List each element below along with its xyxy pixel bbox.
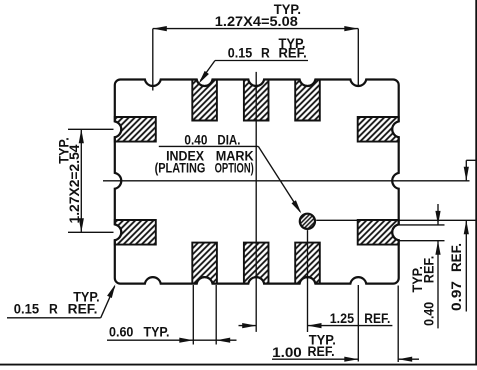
svg-text:0.15: 0.15 [14,302,40,317]
ext line notch top tangent [399,224,445,226]
ext line row3 left [68,231,114,233]
svg-text:REF.: REF. [422,256,437,284]
ext line index circle to right [316,219,477,221]
leader diagonal 0.15R bottom [101,286,115,318]
horizontal center line [103,180,470,182]
leader bar index mark [159,145,258,147]
svg-text:REF.: REF. [449,243,464,272]
pad right-1 [358,117,399,142]
svg-text:1.27X4=5.08: 1.27X4=5.08 [215,14,299,29]
pad top-3 [295,80,320,121]
leader diagonal 0.15R top [201,61,216,81]
ext line castellation col5 top [357,29,359,87]
dim line 0.97 lower segment [465,220,467,311]
pad left-1 [115,117,156,142]
svg-text:(PLATING: (PLATING [155,160,206,175]
pad left-2 [115,220,156,245]
drawing frame line right [475,0,477,365]
ext line row1 left [68,128,114,130]
svg-text:R: R [49,302,58,317]
svg-text:R: R [261,45,270,60]
leader bar 0.15R bottom [7,317,101,319]
svg-text:TYP.: TYP. [144,325,170,340]
ext line pad bottom-1 right edge [215,285,217,345]
svg-text:1.25: 1.25 [330,311,355,326]
dim line 1.25 left tail [239,325,257,327]
pad top-2 [244,80,269,121]
dim line 0.60 [107,339,237,341]
pad right-2 [358,220,399,245]
leader bar 0.15R top [215,60,308,62]
svg-text:REF.: REF. [279,45,307,60]
pad top-1 [192,80,217,121]
dim line 1.25 right tail [308,325,393,327]
svg-text:OPTION): OPTION) [215,160,254,175]
svg-text:REF.: REF. [68,302,98,317]
dim line 1.27X2=2.54 [80,129,82,232]
svg-text:0.40: 0.40 [422,302,437,326]
pad bottom-1 [192,243,217,284]
svg-text:1.00: 1.00 [272,345,302,360]
svg-text:1.27X2=2.54: 1.27X2=2.54 [67,144,82,223]
svg-text:0.15: 0.15 [228,45,253,60]
drawing frame line bottom [0,364,477,366]
svg-text:REF.: REF. [364,311,390,326]
dim line 1.00 left tail [272,358,358,360]
dim line 0.40 upper segment [437,204,439,225]
dim line 1.27X4=5.08 [153,28,358,30]
svg-text:0.97: 0.97 [449,281,464,311]
ext line castellation col5 bottom [357,285,359,362]
svg-text:0.40: 0.40 [184,132,207,147]
dim line 0.97 upper segment [465,160,467,181]
dim line 0.40 lower segment [437,241,439,329]
pad bottom-3 [295,243,320,284]
dim line 1.00 right tail [398,358,419,360]
index mark circle [300,214,315,229]
svg-text:REF.: REF. [308,344,335,359]
ext line notch bottom tangent [399,240,445,242]
ext line castellation col1 top [152,29,154,91]
ext line index circle to pad column 3 [307,230,309,332]
svg-text:0.60: 0.60 [109,325,133,340]
package body outline [115,80,399,284]
svg-text:DIA.: DIA. [217,132,240,147]
pad bottom-2 [244,243,269,284]
leader diagonal to index mark [258,146,300,211]
dim line 0.97 top jog [466,159,477,161]
ext line pad bottom-1 left edge [192,285,194,345]
ext line package right edge bottom [397,286,399,363]
ext line pad column 2 center [255,72,257,332]
